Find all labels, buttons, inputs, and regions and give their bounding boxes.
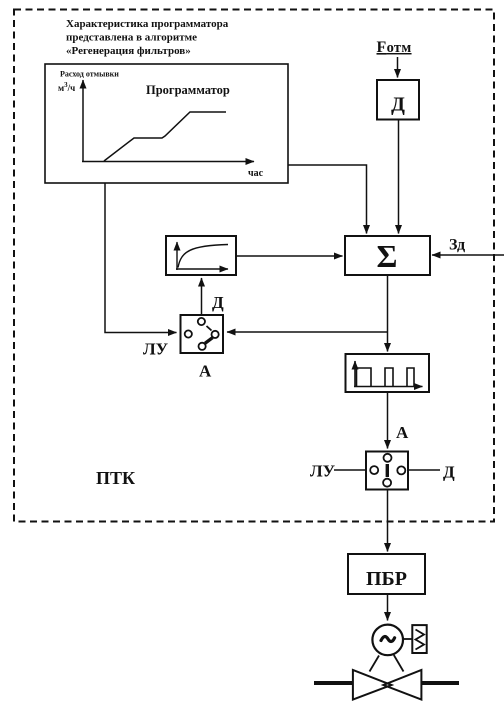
wire PBR to motor bbox=[387, 594, 389, 621]
graph y-axis bbox=[82, 80, 84, 162]
wire motor to brake box bbox=[403, 638, 412, 640]
switch2 box bbox=[366, 452, 408, 490]
programmer graph box bbox=[45, 64, 288, 183]
svg-text:Характеристика программатора: Характеристика программатора bbox=[66, 18, 229, 30]
wire graph box to sum bbox=[288, 165, 367, 234]
wire graph box bottom to switch1 bbox=[105, 183, 177, 333]
svg-text:Зд: Зд bbox=[449, 237, 465, 254]
svg-text:«Регенерация фильтров»: «Регенерация фильтров» bbox=[66, 45, 191, 57]
svg-text:ПТК: ПТК bbox=[96, 468, 135, 488]
valve right triangle bbox=[384, 670, 422, 700]
svg-text:Fотм: Fотм bbox=[377, 39, 412, 56]
PBR box bbox=[348, 554, 425, 594]
svg-text:час: час bbox=[248, 168, 264, 179]
svg-text:А: А bbox=[199, 362, 212, 381]
svg-text:представлена в алгоритме: представлена в алгоритме bbox=[66, 32, 197, 44]
svg-text:Расход отмывки: Расход отмывки bbox=[60, 70, 119, 79]
wire pulse box to switch2 bbox=[387, 392, 389, 449]
wire Fотм to D box bbox=[397, 57, 399, 78]
svg-text:ПБР: ПБР bbox=[366, 568, 407, 590]
svg-text:Д: Д bbox=[443, 463, 455, 482]
graph x-axis bbox=[82, 161, 254, 163]
svg-text:ЛУ: ЛУ bbox=[310, 462, 336, 481]
wire ЛУ to switch2 bbox=[334, 469, 366, 471]
valve left triangle bbox=[353, 670, 392, 700]
pulse generator box bbox=[346, 354, 430, 392]
summator box bbox=[345, 236, 430, 275]
wire switch2 to Д bbox=[408, 469, 440, 471]
svg-text:Д: Д bbox=[212, 293, 224, 312]
D sensor box bbox=[377, 80, 419, 120]
wire characteristic box to sum bbox=[236, 255, 343, 257]
wire switch1 up to characteristic box bbox=[201, 278, 203, 315]
nonlinear characteristic box bbox=[166, 236, 236, 275]
wire sum output down bbox=[387, 275, 389, 352]
wire branch to switch1 bbox=[227, 331, 388, 333]
actuator stems bbox=[370, 656, 380, 672]
dashed PTK boundary box bbox=[14, 10, 494, 522]
caption text block bbox=[66, 18, 229, 57]
wire switch2 to PBR bbox=[387, 490, 389, 552]
wire Зд to sum bbox=[432, 254, 504, 256]
wire D box to sum bbox=[398, 120, 400, 234]
pipe right bbox=[422, 681, 460, 685]
pipe left bbox=[314, 681, 353, 685]
svg-text:Программатор: Программатор bbox=[146, 83, 230, 97]
switch1 box bbox=[181, 315, 224, 353]
programmer step curve bbox=[104, 112, 226, 161]
svg-text:А: А bbox=[396, 423, 409, 442]
svg-text:ЛУ: ЛУ bbox=[143, 340, 169, 359]
motor circle bbox=[372, 625, 403, 656]
svg-text:Д: Д bbox=[391, 94, 405, 116]
svg-text:Σ: Σ bbox=[377, 238, 398, 274]
brake box with zigzag bbox=[412, 625, 426, 653]
